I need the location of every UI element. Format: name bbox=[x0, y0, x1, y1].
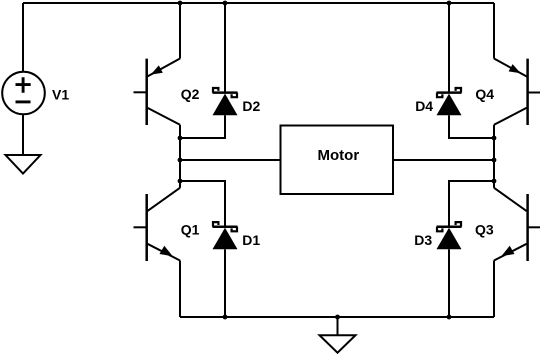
node motor left terminal bbox=[178, 158, 183, 163]
transistor Q3 bbox=[494, 188, 540, 317]
wire left half-bridge center vertical bbox=[179, 125, 181, 188]
ground (main) bbox=[320, 335, 356, 353]
diode D2 bbox=[180, 3, 238, 138]
svg-text:Q4: Q4 bbox=[475, 86, 494, 102]
node top rail / Q2 emitter bbox=[178, 1, 183, 6]
ground (below V1) bbox=[6, 155, 41, 174]
svg-text:Motor: Motor bbox=[318, 147, 360, 164]
svg-text:Q2: Q2 bbox=[181, 86, 200, 102]
svg-text:D2: D2 bbox=[242, 98, 260, 114]
wire ground stub bbox=[337, 317, 339, 336]
motor M1 bbox=[180, 126, 494, 195]
wire bottom rail bbox=[180, 316, 494, 318]
voltage source V1 bbox=[2, 72, 45, 115]
diode D4 bbox=[437, 3, 495, 138]
node D1 cathode junction bbox=[178, 179, 183, 184]
svg-text:Q3: Q3 bbox=[475, 221, 494, 237]
diode D1 bbox=[180, 181, 238, 317]
node D3 cathode junction bbox=[492, 179, 497, 184]
diode D3 bbox=[437, 181, 495, 317]
transistor Q2 bbox=[134, 3, 181, 125]
wire right half-bridge center vertical bbox=[493, 125, 495, 188]
node D2 anode junction bbox=[178, 136, 183, 141]
svg-text:Q1: Q1 bbox=[181, 221, 200, 237]
svg-text:D1: D1 bbox=[242, 232, 260, 248]
wire V1 top lead bbox=[22, 3, 24, 72]
node D1 anode junction bbox=[223, 315, 228, 320]
wire top supply rail bbox=[23, 2, 494, 4]
node top rail / D2 cathode bbox=[223, 1, 228, 6]
svg-text:D4: D4 bbox=[415, 98, 433, 114]
svg-text:D3: D3 bbox=[414, 232, 432, 248]
node motor right terminal bbox=[492, 158, 497, 163]
transistor Q4 bbox=[494, 3, 540, 125]
node D3 anode junction bbox=[447, 315, 452, 320]
node ground junction bbox=[335, 315, 340, 320]
node D4 anode junction bbox=[492, 136, 497, 141]
wire V1 bottom lead bbox=[22, 114, 24, 155]
svg-text:V1: V1 bbox=[52, 87, 69, 103]
transistor Q1 bbox=[134, 188, 181, 317]
node top rail / D4 cathode bbox=[447, 1, 452, 6]
